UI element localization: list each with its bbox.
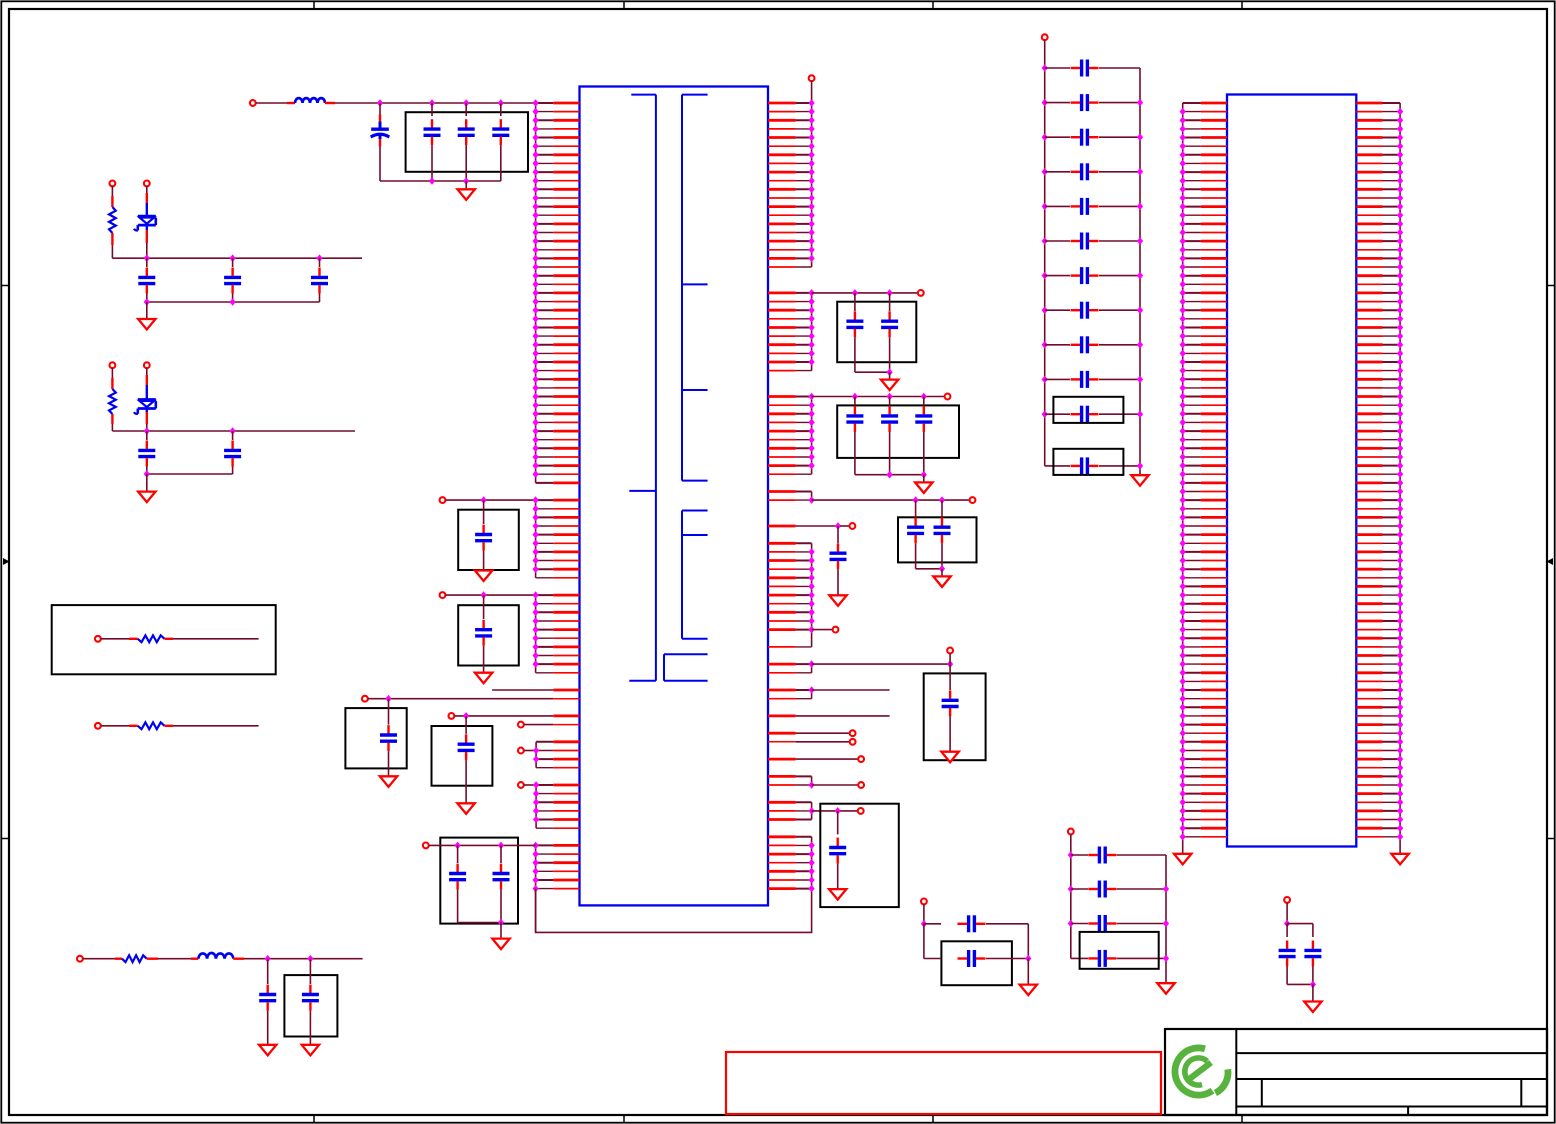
capacitor C38 xyxy=(1045,129,1140,146)
ground G13 xyxy=(933,569,950,587)
IC U1 left pin group F with bus xyxy=(533,842,580,933)
ground G9 xyxy=(457,803,474,814)
box around C12 xyxy=(458,510,519,570)
capacitor C37 xyxy=(1045,94,1140,111)
capacitor C31 xyxy=(1071,881,1166,898)
IC U1 body xyxy=(580,87,769,906)
box around C29 xyxy=(941,941,1012,985)
IC U1 right pin group E with bus xyxy=(768,543,838,647)
capacitor C2 xyxy=(224,258,241,302)
pin row76 stub xyxy=(768,756,864,762)
terminals J1 J2 with leads xyxy=(110,181,150,208)
zener diode D2 xyxy=(134,368,156,431)
capacitor C12 xyxy=(475,500,492,570)
resistor R6 xyxy=(95,722,259,729)
gnd rail box B xyxy=(855,471,927,479)
capacitor C34 xyxy=(1279,924,1296,985)
net rail 1 xyxy=(112,254,362,262)
ground G17 xyxy=(1020,959,1037,996)
capacitor C45 xyxy=(1045,371,1140,388)
border mid arrow right xyxy=(1547,558,1554,565)
IC U1 left pin group C with bus xyxy=(440,591,580,673)
capacitor C4 xyxy=(138,431,155,474)
IC U1 right pin group H xyxy=(768,776,864,788)
wire under IC xyxy=(536,889,812,933)
capacitor C25 xyxy=(830,526,847,595)
gnd rail box3 xyxy=(458,919,505,927)
pin row49 net xyxy=(768,522,855,530)
capacitor C6 xyxy=(259,959,276,1045)
inductor L3 xyxy=(191,953,363,963)
capacitor C40 xyxy=(1045,198,1140,215)
box around C14 xyxy=(345,708,406,768)
pin row74 stub xyxy=(768,739,855,745)
IC U1 right pin group D xyxy=(768,492,815,504)
box around R5 xyxy=(52,605,276,674)
IC U1 right pin group I xyxy=(768,802,864,819)
capacitor C43 xyxy=(1045,302,1140,319)
IC U1 left pin group E xyxy=(518,781,580,828)
capacitor C22 xyxy=(915,397,932,475)
box around C26 xyxy=(924,673,986,760)
terminal J10 xyxy=(921,899,927,928)
box around C47 xyxy=(1053,449,1123,475)
connector CN1 body xyxy=(1227,95,1356,847)
terminal J7 row69 xyxy=(362,695,580,703)
capacitor C35 xyxy=(1287,924,1321,985)
IC U1 right pin group A with bus xyxy=(768,75,815,267)
resistor R5 xyxy=(95,635,259,642)
gnd rail 2 xyxy=(144,470,233,478)
box around C20 C21 C22 xyxy=(837,405,959,458)
title block xyxy=(1165,1029,1547,1115)
box around C23 C24 xyxy=(898,517,977,562)
polarized capacitor C8 xyxy=(371,103,390,181)
pin row71 wire xyxy=(768,715,890,718)
box around C33 xyxy=(1080,932,1159,969)
ground G4 xyxy=(302,1045,319,1056)
pin row73 stub xyxy=(768,730,855,736)
terminal J6 xyxy=(250,100,287,106)
ground G3 xyxy=(259,1045,276,1056)
box around C15 xyxy=(432,726,493,786)
capacitor C44 xyxy=(1045,336,1140,353)
box around C27 xyxy=(820,804,899,907)
inductor L1 xyxy=(287,98,380,103)
ground G5 xyxy=(458,181,475,200)
box around C9 C10 C11 xyxy=(406,112,528,172)
capacitor C18 xyxy=(846,293,863,372)
capacitor C24 xyxy=(934,500,951,569)
ground G2 xyxy=(138,474,155,502)
capacitor C17 xyxy=(493,845,510,922)
capacitor C10 xyxy=(458,103,475,181)
IC U1 right pin group C with bus xyxy=(768,393,815,475)
logo xyxy=(1175,1048,1228,1095)
connector CN1 right pins with bus and ground G22 xyxy=(1356,103,1409,864)
net rail to box C xyxy=(812,496,976,504)
capacitor C3 xyxy=(311,258,328,302)
zener diode D1 xyxy=(134,186,156,258)
capacitor C7 xyxy=(302,959,319,1045)
capacitor C9 xyxy=(424,103,441,181)
ground G7 xyxy=(475,673,492,684)
ground G14 xyxy=(829,595,846,606)
ground G11 xyxy=(881,372,898,390)
ground G6 xyxy=(475,571,492,582)
gnd rail H xyxy=(1287,981,1316,989)
capacitor C33 xyxy=(1071,950,1166,967)
net rail 2 xyxy=(112,427,355,435)
capacitor C30 xyxy=(1071,847,1166,864)
connector CN1 left pins with bus and ground G21 xyxy=(1174,103,1227,864)
ladder T left rail xyxy=(1042,34,1048,466)
terminal J9 row72 xyxy=(518,722,580,728)
ground G19 xyxy=(1304,984,1321,1012)
gnd rail top xyxy=(380,177,501,185)
capacitor C15 xyxy=(458,716,475,803)
ladder G left rail xyxy=(1068,829,1074,959)
terminal J8 row71 xyxy=(449,712,580,720)
box around C18 C19 xyxy=(837,302,916,363)
capacitor C27 xyxy=(829,811,846,889)
net rail box3 xyxy=(423,842,536,850)
IC U1 right pin group B with bus xyxy=(768,289,815,371)
ladder T right rail and ground G20 xyxy=(1131,68,1148,486)
capacitor C46 xyxy=(1045,406,1140,423)
capacitor C23 xyxy=(907,500,924,569)
capacitor C14 xyxy=(380,699,397,777)
capacitor C32 xyxy=(1071,915,1166,932)
ladder G right rail and ground G18 xyxy=(1157,855,1174,994)
wire net row68 xyxy=(492,689,579,691)
capacitor C47 xyxy=(1045,457,1140,474)
capacitor C36 xyxy=(1045,60,1140,77)
capacitor C39 xyxy=(1045,163,1140,180)
box around C16 C17 xyxy=(440,838,518,924)
ground G15 xyxy=(941,752,958,763)
IC U1 left pin group B with bus xyxy=(440,496,580,578)
ground G16 xyxy=(829,889,846,900)
IC U1 right pin group F xyxy=(768,648,953,673)
IC U1 left pin group D xyxy=(518,742,580,768)
ground G10 xyxy=(492,923,509,950)
capacitor C13 xyxy=(475,595,492,673)
box around C46 xyxy=(1053,397,1123,423)
capacitor C5 xyxy=(224,431,241,474)
capacitor C42 xyxy=(1045,267,1140,284)
box around C13 xyxy=(458,605,519,665)
capacitor C20 xyxy=(846,397,863,475)
ground G8 xyxy=(380,776,397,787)
capacitor C29 xyxy=(924,924,1032,967)
capacitor C16 xyxy=(449,845,466,922)
capacitor C19 xyxy=(881,293,898,372)
terminals J3 J4 with leads xyxy=(110,362,150,389)
resistor R3 (vertical) xyxy=(109,207,116,258)
resistor R7 xyxy=(115,955,191,962)
revision red box xyxy=(726,1052,1161,1114)
capacitor C41 xyxy=(1045,233,1140,250)
capacitor C28 xyxy=(924,915,1028,958)
capacitor C11 xyxy=(492,103,509,181)
capacitor C26 xyxy=(942,664,959,752)
net rail to box A xyxy=(812,289,924,297)
ground G12 xyxy=(915,475,932,493)
net VIN rail xyxy=(377,99,536,107)
net rail to box B xyxy=(812,393,951,401)
gnd rail 1 xyxy=(144,298,320,306)
IC U1 left pin group A with bus xyxy=(533,99,580,483)
ground G1 xyxy=(138,302,155,330)
IC U1 right pin group G xyxy=(768,686,890,699)
terminal J5 xyxy=(77,956,115,962)
capacitor C21 xyxy=(881,397,898,475)
IC U1 right pin group J with bus xyxy=(768,837,815,893)
capacitor C1 xyxy=(138,258,155,302)
IC U1 internal banks xyxy=(629,95,707,681)
resistor R4 (vertical) xyxy=(109,389,116,431)
box around C7 xyxy=(284,975,337,1036)
gnd rail box C xyxy=(916,565,946,573)
terminal J11 xyxy=(1284,897,1290,927)
gnd rail box A xyxy=(855,368,893,376)
border mid arrow left xyxy=(3,558,10,565)
